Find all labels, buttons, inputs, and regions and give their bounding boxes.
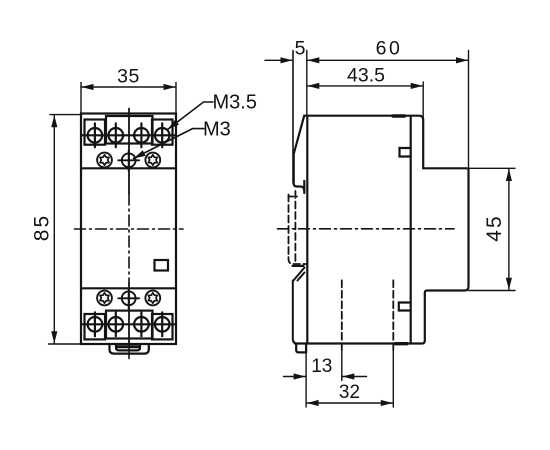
- dimension line 35: [81, 86, 176, 88]
- vertical center line solid part bottom: [128, 283, 130, 345]
- extension line 45 bottom: [469, 290, 516, 292]
- top small phillips screw M3: [118, 150, 139, 171]
- top small torx screw left: [97, 153, 112, 168]
- bottom DIN tab inner: [116, 344, 140, 350]
- hidden spring line dashed vertical: [288, 195, 290, 258]
- bottom screw 2: [109, 312, 124, 336]
- top screw 2: [109, 123, 124, 147]
- dimension line 32: [306, 402, 393, 404]
- top screw axis line: [81, 134, 176, 136]
- front face line: [306, 117, 308, 344]
- mounting plane line: [292, 51, 294, 184]
- bottom thick tick: [395, 342, 407, 345]
- extension line 35 right: [175, 83, 177, 114]
- top screw 3: [134, 123, 149, 147]
- svg-text:M3: M3: [203, 119, 231, 141]
- top screw 1: [88, 123, 103, 147]
- svg-text:43.5: 43.5: [347, 65, 385, 87]
- side center line: [278, 228, 455, 230]
- bottom small phillips screw: [118, 288, 139, 309]
- dim 5 approach line: [265, 59, 293, 61]
- bottom small torx screw right: [145, 291, 160, 306]
- bottom small torx screw left: [97, 291, 112, 306]
- svg-text:M3.5: M3.5: [213, 92, 257, 114]
- side body outline: [294, 116, 305, 191]
- extension line 13/32 left: [305, 353, 307, 408]
- horizontal center line front view: [75, 228, 184, 230]
- dimension line 45: [508, 169, 510, 291]
- line under top terminal section: [81, 167, 176, 169]
- extension line 13 right: [341, 350, 343, 381]
- bottom terminal square 1: [85, 314, 106, 339]
- top surface: [295, 116, 469, 344]
- svg-text:13: 13: [311, 356, 332, 377]
- leader M3.5: [168, 102, 214, 130]
- claw stub: [303, 181, 305, 193]
- hidden spring bottom corner: [289, 257, 308, 264]
- bottom terminal center box: [106, 311, 153, 339]
- bottom screw axis line: [81, 323, 176, 325]
- svg-text:45: 45: [483, 214, 506, 241]
- top screw 4: [155, 123, 170, 147]
- svg-text:35: 35: [117, 66, 140, 88]
- dimension line 43.5: [307, 85, 423, 87]
- foot tab right edge: [305, 344, 307, 353]
- lower clip rectangle: [399, 303, 411, 311]
- bottom screw 1: [88, 312, 103, 336]
- side foot tab: [296, 344, 306, 353]
- dim 13 left approach: [284, 376, 307, 378]
- top small torx screw right: [145, 153, 160, 168]
- lower latch lever and foot curve: [293, 281, 298, 344]
- body outline front view: [81, 114, 176, 345]
- top surface notch: [393, 114, 405, 117]
- bottom claw horizontal: [293, 265, 304, 267]
- extension line 85 top: [50, 114, 80, 116]
- bottom screw 3: [134, 312, 149, 336]
- extension line 5/60 left: [306, 51, 308, 116]
- inner vertical line: [410, 117, 412, 343]
- svg-text:85: 85: [31, 214, 54, 241]
- svg-text:60: 60: [376, 38, 403, 60]
- leader M3: [134, 129, 205, 159]
- extension line 85 bottom: [49, 343, 81, 345]
- vertical center line below tab: [128, 347, 130, 359]
- hidden spring top stub: [289, 196, 298, 198]
- extension line 43.5 right: [422, 82, 424, 119]
- dim 13 right approach: [342, 376, 367, 378]
- upper clip rectangle: [400, 148, 411, 157]
- extension line 32 right: [392, 350, 394, 407]
- top terminal center box: [106, 116, 153, 144]
- hidden spring pocket right edge: [294, 191, 296, 263]
- top terminal square 4: [152, 120, 173, 145]
- top terminal square 1: [85, 120, 106, 145]
- svg-text:32: 32: [339, 382, 360, 403]
- extension line 45 top: [470, 167, 515, 169]
- vertical center line solid part top: [128, 109, 130, 195]
- line above bottom terminal section: [81, 287, 176, 289]
- hidden line 32 dashed: [392, 280, 394, 350]
- svg-text:5: 5: [295, 38, 306, 60]
- bottom screw 4: [155, 312, 170, 336]
- extension line 60 right: [468, 51, 470, 168]
- hidden line 13 dashed: [341, 280, 343, 350]
- bottom DIN tab thick bar: [117, 345, 140, 348]
- indicator window: [155, 260, 169, 271]
- dimension line 60: [307, 59, 469, 61]
- bottom DIN tab outer: [110, 344, 149, 354]
- dimension line 85: [53, 115, 55, 344]
- vertical center line dash-dot: [128, 194, 130, 283]
- bottom terminal square 4: [152, 314, 173, 339]
- extension line 35 left: [80, 83, 82, 114]
- bottom claw wedge: [293, 268, 305, 282]
